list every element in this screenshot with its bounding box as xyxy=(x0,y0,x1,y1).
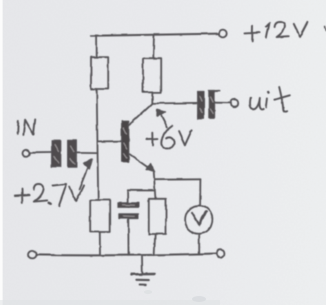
label +6V xyxy=(147,133,158,146)
terminal bottom right xyxy=(217,250,225,258)
label uit xyxy=(250,98,264,110)
resistor R4 xyxy=(149,199,166,234)
wire bypass cap top lead xyxy=(127,190,129,203)
wire emitter to voltmeter branch xyxy=(154,178,200,180)
annotation arrow to base xyxy=(79,166,88,190)
terminal +12V xyxy=(219,30,227,38)
transistor Q1 collector stroke xyxy=(129,104,152,125)
label +2.7V xyxy=(15,189,30,203)
wire base xyxy=(97,140,121,142)
transistor Q1 base bar xyxy=(122,121,129,162)
resistor R1 xyxy=(91,57,108,89)
capacitor C2 output left plate xyxy=(198,91,204,118)
wire cap to base column xyxy=(77,152,98,154)
faint smudge mark bottom xyxy=(192,296,206,302)
resistor R2 xyxy=(143,58,161,92)
stray mark right edge xyxy=(325,27,326,31)
ground bar 3 xyxy=(139,284,146,286)
wire right column top xyxy=(152,35,155,59)
capacitor C1 input right plate xyxy=(68,140,77,167)
wire emitter column xyxy=(154,172,156,198)
label +12V xyxy=(245,26,260,42)
plate texture highlights xyxy=(54,96,213,216)
wire top rail xyxy=(91,34,219,36)
wire collector lead xyxy=(151,92,153,103)
wire left column bottom lead xyxy=(99,232,101,255)
wire left column top xyxy=(96,35,98,57)
voltmeter V mark xyxy=(192,211,206,225)
annotation arrow to collector xyxy=(161,115,167,127)
wire collector to output cap xyxy=(152,102,197,105)
label IN xyxy=(18,119,36,135)
terminal uit xyxy=(231,99,238,106)
bottom edge shade xyxy=(0,300,220,305)
wire emitter to bypass cap xyxy=(127,189,154,191)
capacitor C3 bypass top plate xyxy=(118,203,139,208)
white left edge xyxy=(0,0,3,305)
terminal IN xyxy=(23,150,30,157)
wire bypass cap bottom lead xyxy=(127,219,129,254)
ground bar 1 xyxy=(131,273,154,276)
ground bar 2 xyxy=(136,279,148,281)
capacitor C2 output right plate xyxy=(209,90,215,117)
capacitor C3 bypass bottom plate xyxy=(118,214,138,219)
transistor Q1 emitter arrowhead xyxy=(146,163,154,171)
resistor R3 xyxy=(90,200,110,232)
ground stem xyxy=(141,256,143,273)
transistor Q1 emitter stroke xyxy=(130,154,152,169)
capacitor C1 input left plate xyxy=(52,140,61,167)
voltmeter M1 circle xyxy=(185,206,212,234)
wire bottom rail xyxy=(36,254,217,256)
wire voltmeter bottom lead xyxy=(198,233,200,254)
wire left column middle xyxy=(97,89,99,200)
terminal bottom left xyxy=(28,250,36,258)
wire IN to cap xyxy=(29,152,51,154)
wire R4 bottom lead xyxy=(154,234,155,254)
wire voltmeter top lead xyxy=(199,179,201,205)
wire cap to uit terminal xyxy=(215,102,231,104)
